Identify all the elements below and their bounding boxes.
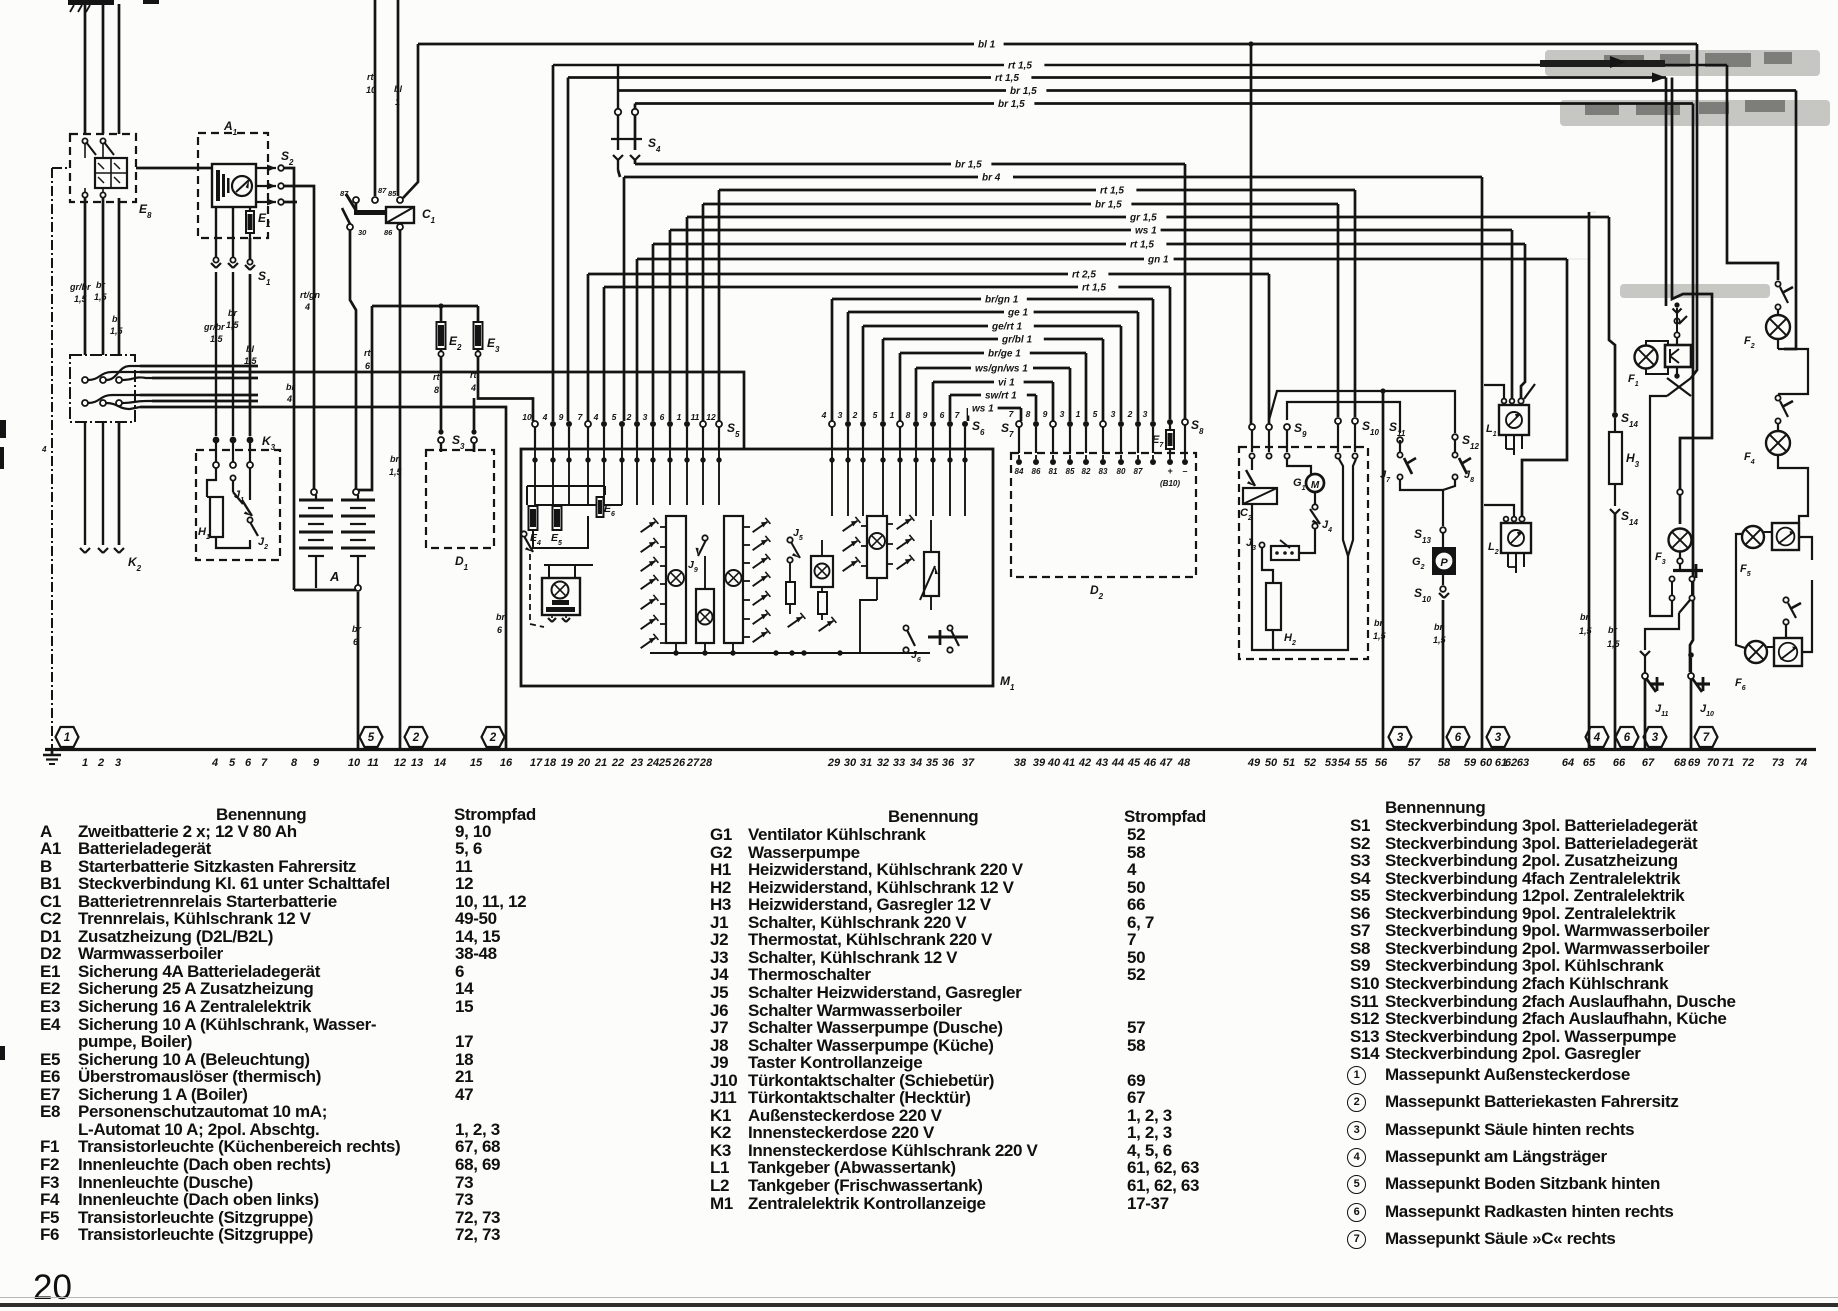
E8 lower terminals <box>82 192 87 197</box>
wire gr/bl 1 (inner nest y=339) <box>883 338 1103 341</box>
connector S7 terminals <box>1016 421 1022 427</box>
wire tap to L2 <box>1484 505 1514 517</box>
wire drop br4 to ground point 60 <box>1481 177 1484 749</box>
label br/ge 1 <box>984 348 1030 361</box>
wire bl 1 (top net) <box>418 43 1697 46</box>
wire bl 1 feed <box>397 0 400 196</box>
K3 inner terminals <box>213 462 219 468</box>
wire E2 to S3 <box>440 349 443 434</box>
ground point 3 <box>1389 727 1412 747</box>
wire br 1,5 (net 5) <box>635 102 1693 105</box>
wire rt 1,5 (net 3) <box>568 76 1666 79</box>
switch group J6 bottom <box>903 625 908 630</box>
relay C1 armature <box>355 203 358 212</box>
wires A1 to S1 <box>215 207 217 260</box>
label rt 1,5 <box>1096 185 1136 198</box>
heater resistor H1 <box>210 497 223 537</box>
relay C1 coil <box>386 207 414 223</box>
resistor in M1 (J6 branch) <box>818 592 827 614</box>
wire rt 1,5 (staircase y=287) <box>604 286 1170 289</box>
charger meter <box>232 176 252 196</box>
interior light F1 lamp <box>1635 346 1658 369</box>
connector S1 chevrons <box>211 263 216 268</box>
fuse E3 <box>474 322 483 349</box>
seat lamp F5 <box>1742 526 1764 548</box>
label ws 1 <box>1131 225 1161 238</box>
connector S9 <box>1249 424 1255 430</box>
wire drop br1,5 to connector S8 minus <box>1184 164 1187 419</box>
heater resistor H2 <box>1266 583 1281 630</box>
M1 internal links <box>533 516 588 548</box>
wire drop staircase3 to S14/H3 <box>1609 217 1615 412</box>
roof light F2 <box>1766 315 1790 339</box>
wire F2 to F4 rail <box>1778 349 1808 394</box>
wire drop staircase4 to tank sender L1 <box>1511 230 1514 399</box>
ground point 3 <box>1487 727 1510 747</box>
module block 4 in M1 <box>867 516 887 578</box>
D2 terminals <box>1016 459 1022 465</box>
wire rt 1,5 (net 2) <box>553 64 1727 67</box>
module block 2 in M1 <box>696 589 714 643</box>
ground point 6 <box>1447 727 1470 747</box>
door contact switch J10 <box>1688 652 1694 658</box>
connector S5 terminals <box>532 421 538 427</box>
wire br/ge 1 (inner nest y=353) <box>900 352 1086 355</box>
wires K1 S-curves to right <box>88 372 140 380</box>
wire drop staircase8 to fuse E7 <box>1169 287 1172 419</box>
label rt 2,5 <box>1068 269 1108 282</box>
wire battery to ground point 10 <box>357 592 360 749</box>
label bl 1 <box>974 39 1004 52</box>
water pump G2 <box>1432 547 1456 575</box>
module block 1 in M1 <box>666 516 686 643</box>
wire drop staircase6 to tank sender L2 <box>1522 259 1567 517</box>
diode pair bottom middle <box>788 617 803 627</box>
label ge 1 <box>1004 307 1034 320</box>
dashed control link <box>530 554 544 627</box>
connector S13 <box>1440 527 1446 533</box>
M1 internal horizontals <box>535 504 622 506</box>
wire top link to fuses <box>372 305 478 308</box>
M1 internal feed bus <box>527 485 605 487</box>
wire bl1 drop joins F1 <box>1691 44 1697 378</box>
wire drops to connector S6 <box>831 299 834 421</box>
wire rt 1,5 (staircase y=244) <box>653 243 1525 246</box>
L1 fork lower <box>1505 435 1507 449</box>
fuse E4 in M1 <box>529 506 538 530</box>
wire br 1,5 (staircase y=204) <box>703 203 1338 206</box>
L2 fork lower <box>1507 553 1509 567</box>
wire ws/gn/ws 1 (inner nest y=368) <box>916 367 1070 370</box>
wire pump to ground 58 <box>1442 600 1445 749</box>
label ws/gn/ws 1 <box>971 363 1033 376</box>
wire long runs from K1 to the centre <box>140 365 258 368</box>
tank sender L2 <box>1504 517 1509 522</box>
connector S10 <box>1335 418 1341 424</box>
wire rail to ground 65 <box>1588 212 1591 749</box>
connector S4 <box>615 109 621 115</box>
wire S2 low stub <box>284 201 297 204</box>
socket K1 box (dash-dot) <box>70 355 135 422</box>
lamp module M1 left <box>542 578 580 615</box>
door contact switch J11 <box>1642 673 1648 679</box>
label br 1,5 <box>951 159 991 172</box>
fuse E5 in M1 <box>553 506 562 530</box>
wire to ground 65 <box>1589 211 1596 213</box>
wires S1 to K3 <box>215 272 217 436</box>
wire S3 into D1 <box>440 443 442 452</box>
label ws 1 <box>968 403 998 416</box>
switch in M1 left <box>524 536 533 552</box>
M1 internal feed wires <box>534 449 536 505</box>
wire ge/rt 1 (inner nest y=326) <box>863 325 1121 328</box>
wire drop net5 to door switch J10 <box>1690 104 1693 673</box>
wire drop staircase2 to S10 left <box>1337 204 1340 417</box>
ground point 1 <box>56 727 79 747</box>
wire gr 1,5 (staircase y=217) <box>687 216 1609 219</box>
label br 1,5 <box>1091 199 1131 212</box>
wire E3 jog to comb S5-1 <box>478 349 533 421</box>
scan artifact smudges <box>1545 50 1830 298</box>
battery B (cut off at top edge) <box>68 0 114 5</box>
relay C2 <box>1243 488 1277 504</box>
seat lamp F6 <box>1745 641 1767 663</box>
wire br/gn 1 (inner nest y=299) <box>832 298 1153 301</box>
breaker E6 <box>597 497 604 517</box>
wire E8 to K1 phase 1 <box>84 198 87 355</box>
label br 1,5 <box>1006 85 1046 98</box>
wire L-senders feed rail <box>1484 385 1504 399</box>
connector S8 terminals <box>1167 419 1173 425</box>
wire rt 2,5 (staircase y=274) <box>588 273 1269 276</box>
label gn 1 <box>1144 254 1174 267</box>
wire mains phase 3 <box>118 4 121 134</box>
ground point 3 <box>1644 727 1667 747</box>
thermometer probe <box>1339 459 1356 556</box>
wire mains phase 1 <box>84 4 87 134</box>
F3 push switch <box>1677 558 1683 564</box>
switch above F6 <box>1783 597 1788 602</box>
label sw/rt 1 <box>981 390 1027 403</box>
indicator diodes column 2 <box>744 526 750 528</box>
wire gn 1 (staircase y=259) <box>637 258 1567 261</box>
wire F4 down rail <box>1778 455 1808 523</box>
wire battery bottom <box>294 589 358 592</box>
label gr 1,5 <box>1126 212 1166 225</box>
shower light F3 lamp <box>1669 529 1692 552</box>
wire H3 to ground 66 <box>1614 514 1617 749</box>
refrigerator unit box <box>1239 447 1368 659</box>
left edge scan marks <box>0 420 6 1060</box>
lamp module J6 area <box>811 556 833 587</box>
wire S9 feeds to pump branch <box>1269 391 1455 433</box>
fan motor G1 <box>1306 474 1324 492</box>
label br/gn 1 <box>981 294 1027 307</box>
interior light F1 switch <box>1674 302 1679 307</box>
protection breaker E8 box <box>70 134 136 202</box>
socket K3 box <box>196 450 280 560</box>
wire C1-86 down br1,5 <box>399 230 402 749</box>
connector S11 <box>1397 437 1403 443</box>
wire E8-A1 link <box>136 167 198 170</box>
wire drop staircase7 to S9 middle <box>1268 274 1271 424</box>
M1 internal bottom rail <box>650 652 930 654</box>
label rt 1,5 <box>1004 60 1044 73</box>
resistor in M1 (J5 branch) <box>786 582 795 604</box>
wire F6 right rail <box>1802 580 1812 652</box>
ground point 5 <box>360 727 383 747</box>
M1 top junction dots <box>532 457 537 462</box>
battery charger A1 box <box>198 133 268 238</box>
wire sw/rt 1 (inner nest y=395) <box>950 394 1036 397</box>
ground point 4 <box>1586 727 1609 747</box>
wire rt 1,5 (staircase y=190) <box>719 189 1355 192</box>
switch J7 <box>1399 440 1401 452</box>
connector S6 terminals <box>829 421 835 427</box>
switch J1 <box>207 468 216 497</box>
wire vi 1 (inner nest y=382) <box>933 381 1053 384</box>
potentiometer in M1 <box>924 552 939 596</box>
relay C1 contacts <box>353 197 359 203</box>
roof light F4 switch <box>1775 395 1780 400</box>
wire rt 10 feed <box>374 0 377 196</box>
wire mains phase 2 <box>102 4 105 134</box>
socket K3 dots <box>213 437 220 444</box>
interior light F1 module <box>1665 345 1691 367</box>
wire br 1,5 (net 4) <box>618 89 1796 92</box>
roof light F2 switch <box>1775 281 1780 286</box>
ground point 2 <box>405 727 428 747</box>
K1 terminals lower <box>82 400 88 406</box>
ground point 6 <box>1616 727 1639 747</box>
wire E8 to K1 phase 2 <box>102 198 105 355</box>
second battery A <box>311 489 317 495</box>
wire drop staircase1 to S10 right <box>1354 190 1357 417</box>
label ge/rt 1 <box>988 321 1034 334</box>
ground point 2 <box>482 727 505 747</box>
central electric control M1 box <box>521 449 993 686</box>
wire E8 to K1 phase 3 <box>118 198 121 355</box>
wire bl1 net to C1 87a <box>403 44 418 198</box>
wire S2 mid to battery plus <box>284 186 314 489</box>
wire br 1,5 (below S4) <box>635 163 1185 166</box>
L1 switch arm <box>1524 384 1535 399</box>
wire ws 1 (inner nest y=408) <box>968 407 1021 410</box>
wire F1 lamp parallel links <box>1646 341 1668 346</box>
wire drops S7 comb to inner nest <box>1020 408 1023 421</box>
label br 4 <box>978 172 1013 185</box>
wire net3 drop to F1 switch <box>1672 78 1712 525</box>
relay C1 lower terminals <box>347 224 353 230</box>
label vi 1 <box>994 377 1024 390</box>
wire ge 1 (inner nest y=312) <box>848 311 1138 314</box>
indicator diodes column 3 <box>843 521 858 531</box>
label rt 1,5 <box>1126 239 1166 252</box>
wire drop bl1 to S9 <box>1248 41 1253 46</box>
auxiliary heater D1 box <box>426 450 494 548</box>
wire rt6 drop <box>358 306 372 490</box>
label rt 1,5 <box>991 72 1031 85</box>
fuse E2 <box>437 322 446 349</box>
label br 1,5 <box>994 98 1034 111</box>
ground symbol main <box>51 749 54 755</box>
switch J8 <box>1454 440 1456 452</box>
ground bus line <box>45 748 1816 751</box>
wire S2 top to br4 drop <box>284 168 294 590</box>
breaker E8 body <box>95 158 127 188</box>
wire drop net2 to lamp F2 feed <box>1727 65 1778 280</box>
K1 terminals upper <box>82 377 88 383</box>
wire F1 to shower light chain <box>1650 396 1672 616</box>
wire drop net3 to lamp F1 feed <box>1665 78 1668 307</box>
wire drop net4 down right edge <box>1784 91 1796 350</box>
indicator diodes column 1 <box>641 522 656 532</box>
hot water boiler D2 box <box>1011 453 1196 577</box>
switch J4 <box>1314 492 1316 505</box>
module block 3 in M1 <box>724 516 743 643</box>
socket K2 tails <box>84 422 86 545</box>
wire ws 1 (staircase y=230) <box>670 229 1512 232</box>
wire br 6 tap <box>474 407 506 749</box>
connector S12 <box>1452 434 1458 440</box>
charger body <box>212 164 256 207</box>
roof light F4 <box>1766 431 1790 455</box>
fuse E7 <box>1166 430 1174 449</box>
wire J7/J8 join to pump <box>1400 480 1443 526</box>
connector S14 upper <box>1612 412 1618 418</box>
wire dash-dot earth boundary <box>52 167 70 169</box>
connector S10 lower <box>1442 575 1444 585</box>
tank sender L1 <box>1502 399 1507 404</box>
wire drops to connector S5 <box>552 65 555 421</box>
connector S2 arrows <box>256 167 276 169</box>
wire drop staircase5 to tank sender L1 right <box>1521 244 1525 399</box>
connector S3 <box>438 437 444 443</box>
fuse E1 <box>246 211 254 233</box>
indicator diodes column 4 <box>887 523 893 525</box>
breaker E8 contacts <box>82 138 87 143</box>
label rt 1,5 <box>1078 282 1118 295</box>
wire C1-30 to battery <box>350 230 356 489</box>
gas regulator heater H3 <box>1609 432 1622 484</box>
label gr/bl 1 <box>998 334 1044 347</box>
switch J2 (thermostat) <box>242 500 252 516</box>
connector S14 lower <box>1614 484 1616 506</box>
ground point 7 <box>1695 727 1718 747</box>
wire F3 switch to door switch J11 <box>1645 613 1679 650</box>
wire F1 below crossing <box>1676 367 1678 378</box>
wire br 4 <box>624 176 1482 179</box>
wire br1,5 to ground 56 <box>1382 391 1385 749</box>
wire F5 feeds <box>1736 534 1745 648</box>
